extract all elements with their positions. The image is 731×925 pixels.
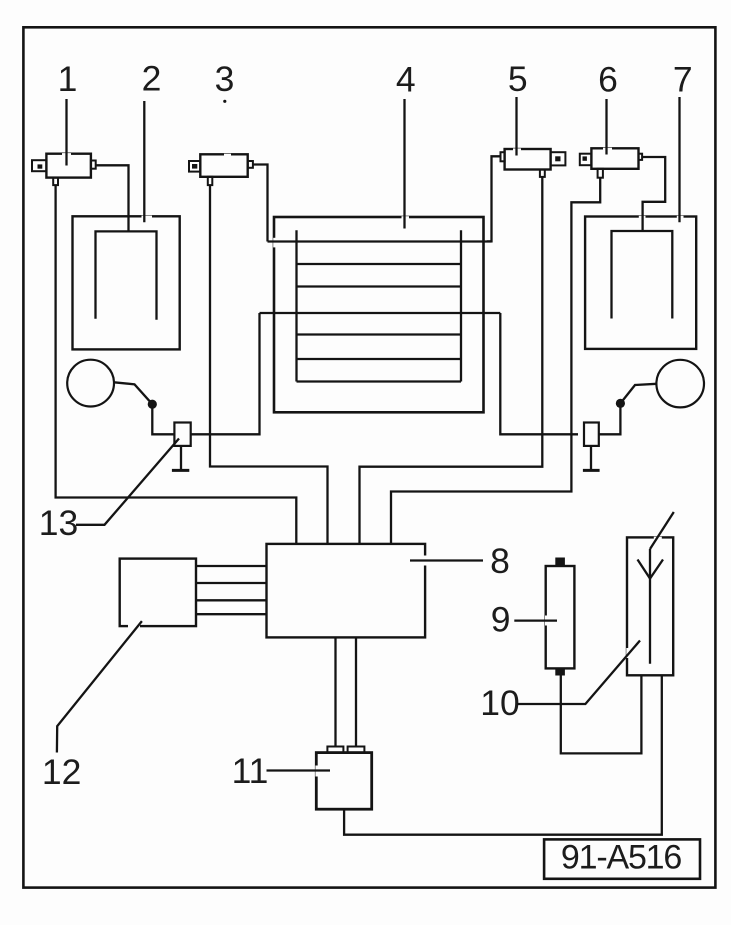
wire suppressor9 to antenna 10 base (561, 675, 642, 753)
tweeter 5 left tab (501, 152, 505, 161)
radio 4 slat line 5 (297, 333, 462, 335)
svg-text:91-A516: 91-A516 (561, 839, 681, 877)
part number box 91-A516 (544, 839, 700, 878)
wire unit8 bottom right to amp 11 (355, 637, 357, 746)
connector 13 left stand stem (180, 446, 182, 469)
amplifier unit 8 box (267, 544, 426, 638)
antenna 10 mast (649, 549, 651, 664)
connector 13 right stand stem (590, 446, 592, 469)
radio 4 slat line 3 (297, 285, 462, 287)
wire tweeter3 stub down-right to unit 8 (210, 185, 328, 544)
antenna 10 incoming signal diagonal (650, 512, 674, 549)
radio 4 slat line 2 (297, 263, 462, 265)
wire tweeter6 stub down-left to unit 8 (391, 178, 600, 544)
wire radio4 right slat down to connector 13 right (500, 313, 578, 434)
wire tweeter6 tab to speaker box 7 (642, 157, 665, 231)
leader 1 (65, 99, 67, 166)
tweeter 1 plug contact (38, 164, 43, 168)
radio 4 slat line 4 with side wires (260, 312, 501, 314)
tweeter 3 left plug (189, 161, 200, 172)
leader 12 (57, 621, 142, 752)
wire tweeter1 tab to speaker box 2 (96, 165, 129, 230)
bus wire 4 between 12 and 8 (196, 613, 267, 615)
tweeter 6 body (591, 148, 638, 169)
leader 7 (678, 97, 680, 222)
tweeter 3 right tab (248, 161, 253, 168)
tweeter 1 left plug (32, 160, 46, 171)
connector 13 right stand base (583, 469, 600, 472)
svg-text:13: 13 (39, 503, 79, 543)
leader 2 (143, 101, 145, 222)
wire left circle to junction dot (114, 382, 152, 404)
tweeter 6 left plug (580, 154, 592, 166)
bus wire 3 between 12 and 8 (196, 599, 267, 601)
wire right dot down to connector 13 right (599, 403, 621, 434)
tweeter 6 right tab (639, 154, 643, 160)
wire tweeter5 stub down-left to unit 8 (360, 177, 543, 544)
leader 4 (403, 99, 405, 229)
control unit 12 box (120, 559, 196, 627)
svg-text:3: 3 (215, 59, 235, 99)
wire amp11 bottom to antenna 10 (344, 675, 662, 834)
suppressor 9 body (546, 566, 575, 668)
leader 11 (267, 769, 331, 771)
speaker 2 inner cone (96, 231, 157, 319)
svg-text:1: 1 (58, 59, 78, 99)
svg-text:12: 12 (42, 752, 82, 792)
wire right circle to junction dot (620, 384, 656, 404)
wire tweeter3 tab to radio 4 (253, 165, 268, 242)
tweeter 1 right tab (91, 161, 96, 169)
leader 13 (76, 439, 179, 525)
tweeter 3 bottom stub (208, 177, 213, 185)
leader 8 (410, 559, 483, 561)
radio 4 inner left edge (295, 230, 297, 381)
svg-text:5: 5 (508, 59, 528, 99)
svg-text:7: 7 (673, 60, 693, 100)
tweeter 3 body (200, 154, 247, 177)
leader 9 (514, 619, 557, 621)
radio 4 slat line 6 (297, 358, 462, 360)
tweeter 5 bottom stub (540, 170, 545, 177)
leader 10 (517, 641, 640, 705)
svg-text:4: 4 (396, 60, 416, 100)
suppressor 9 top contact (555, 558, 565, 567)
speaker box 2 (73, 216, 180, 349)
wire radio4 left slat down to connector 13 (191, 313, 260, 434)
antenna 10 box (627, 537, 673, 675)
amp 11 box (316, 753, 371, 810)
junction dot left (148, 400, 157, 409)
connector 13 left stand base (172, 469, 189, 472)
tweeter 1 body (46, 154, 91, 178)
radio 4 inner bottom edge (297, 380, 462, 382)
svg-text:9: 9 (491, 600, 511, 640)
radio 4 inner right edge (460, 230, 462, 381)
speaker box 7 (585, 217, 696, 349)
svg-text:11: 11 (232, 751, 269, 791)
wire unit8 bottom left to amp 11 (334, 637, 336, 746)
amp 11 plug right (348, 747, 365, 753)
wire tweeter1 stub down-right to unit 8 (56, 185, 297, 544)
connector 13 right box (584, 423, 599, 446)
tweeter 6 bottom stub (598, 169, 603, 178)
right speaker circle (656, 360, 704, 408)
tweeter 5 plug contact (555, 156, 560, 161)
tweeter 6 plug contact (583, 156, 587, 160)
wire left dot down to connector 13 (152, 404, 174, 434)
suppressor 9 bottom contact (555, 668, 565, 675)
svg-text:6: 6 (598, 60, 618, 100)
speaker 7 inner cone (612, 231, 673, 319)
wire tweeter5 tab to radio 4 (487, 156, 501, 241)
svg-text:10: 10 (480, 683, 520, 723)
radio unit 4 outer box (274, 217, 484, 412)
bus wire 2 between 12 and 8 (196, 582, 267, 584)
leader 6 (605, 99, 607, 155)
tweeter 3 plug contact (192, 164, 197, 169)
junction dot right (616, 399, 625, 408)
left speaker circle (67, 360, 114, 407)
leader 3 dot (223, 100, 226, 103)
connector 13 left box (174, 423, 190, 446)
antenna 10 arrow (638, 560, 664, 579)
tweeter 5 body (505, 149, 551, 170)
svg-text:8: 8 (490, 541, 510, 581)
svg-text:2: 2 (142, 59, 162, 99)
tweeter 5 right plug (551, 152, 566, 165)
bus wire 1 between 12 and 8 (196, 565, 267, 567)
tweeter 1 bottom stub (53, 178, 58, 186)
radio 4 slat line 1 with side wires (268, 240, 492, 242)
leader 5 (515, 97, 517, 156)
amp 11 plug left (327, 747, 343, 753)
